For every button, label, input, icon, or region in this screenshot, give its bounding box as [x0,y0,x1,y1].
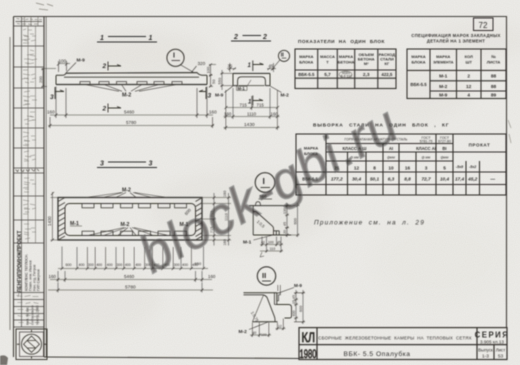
bottom dim row 160 5460 160 [50,87,213,119]
cut mark 2 upper [108,62,121,71]
left vertical dim 550 [221,70,234,90]
embedded angle M-9 [277,293,281,301]
callout circle II [271,50,290,70]
section 1-1 view [38,35,217,128]
dim 160 1110 160 [224,88,280,119]
embedded plates M-2 in soffit [80,82,182,85]
cut mark 3 right [199,87,206,99]
vertical institute name [17,230,23,293]
tick chain below plan [58,247,208,271]
callout circle I [167,49,194,72]
bottom dims [250,319,286,338]
bottom dims [260,237,283,253]
edge profile [244,293,292,322]
slab profile [56,73,207,85]
cut mark 2 lower [108,104,121,113]
right dims [278,285,305,324]
title 3-3 [97,161,157,168]
top small dims 35 / 45 [227,63,276,72]
embedded plates top edge [82,204,187,208]
left margin stamp strip [14,17,48,360]
edge profile [249,202,291,235]
cut mark 1 lower [253,96,263,106]
embedded plates bottom edge [82,231,187,235]
detail II [239,267,306,337]
table: indicators per block [295,39,396,89]
table: specification of embedded parts [407,33,506,99]
leader fan to label M-2 [85,85,177,92]
stamp handwriting noise [16,29,40,324]
callout circle I [255,173,275,193]
dim 100 top-left [57,61,70,72]
section 2-2 view [215,34,290,130]
institute logo box [16,329,47,360]
sheet number box 72 [474,18,494,31]
lower leader fan to M-2 [88,228,168,236]
table: steel take-off [296,123,506,196]
plan view 3-3 [47,161,231,293]
callout circle II [257,267,275,285]
dim row 160 5460 160 [50,271,212,282]
scan edge line [9,37,11,330]
title 1-1 [97,35,157,42]
plan outline [58,198,202,241]
hatched end bands [58,198,202,241]
KL monogram [300,330,317,361]
dim 5780 [48,283,213,293]
title block [299,328,509,361]
watermark [130,95,409,285]
trough cross-section [233,73,270,85]
bottom dim 5780 [48,117,214,128]
title 2-2 [231,34,271,41]
left end vertical dims [42,68,57,88]
cut mark 1 upper [253,61,264,72]
detail I [243,173,300,257]
left dim 1430 [51,192,59,242]
dim 1430 [224,119,280,130]
cut mark 3 left [55,87,64,99]
right end vertical dims [209,64,216,88]
dim 715 715 [225,96,280,110]
right dims [285,203,300,237]
right dims 160 1110 160 + 715s [202,193,231,246]
label M-1 boxed [237,80,252,91]
